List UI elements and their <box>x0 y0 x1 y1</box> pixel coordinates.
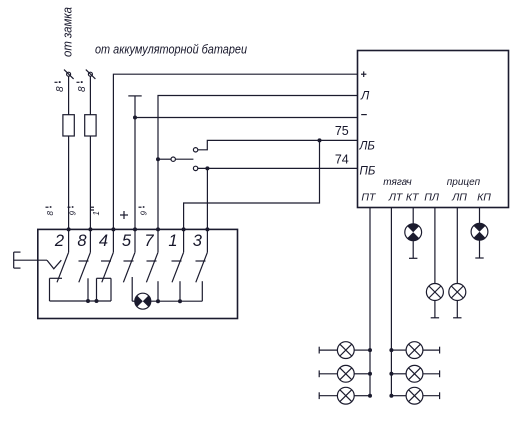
changeover switch SA1 arm <box>175 158 193 160</box>
changeover switch SA1 lower contact <box>193 166 197 170</box>
wire tag near pin 7 <box>139 206 149 215</box>
svg-text:ЛП: ЛП <box>451 192 467 204</box>
riser a <box>87 278 89 301</box>
wire: relay pin КП <box>479 208 481 224</box>
junction: pin 7 entry <box>156 227 160 231</box>
wire: battery + net (to relay box pin +, down to switch pin 4) <box>113 74 357 252</box>
actuator V pawl <box>47 260 61 269</box>
control lamp HL4 (КП, filled) <box>471 223 488 240</box>
junction: net ЛБ <box>318 138 322 142</box>
riser e <box>157 281 159 301</box>
svg-text:прицеп: прицеп <box>447 177 481 188</box>
wire label 8 (left wire) <box>55 81 67 92</box>
svg-text:2: 2 <box>54 232 64 250</box>
wire: net ПБ down to switch pin 3 <box>206 168 208 252</box>
lamp HL2 (ПЛ) <box>426 284 443 301</box>
wire: connector X1 to fuse F1 <box>68 76 70 115</box>
junction: ПТ bus row 1 <box>368 348 372 352</box>
contact 2 fixed terminal <box>50 278 63 301</box>
wire: fuse F2 to switch pin 8 <box>89 136 91 252</box>
wire: relay pin КТ <box>412 208 414 224</box>
switch box SA2 (turn signal switch) <box>38 229 238 318</box>
svg-text:ЛБ: ЛБ <box>359 141 376 153</box>
riser f <box>179 281 181 301</box>
svg-text:9: 9 <box>140 211 149 216</box>
wire: feed to changeover switch pole <box>158 158 171 160</box>
internal bus (left) <box>50 300 112 302</box>
pilot lamp HL11 (in switch, filled) <box>135 293 151 309</box>
wire: upper contact to net ЛБ (75) <box>198 140 358 149</box>
svg-text:8: 8 <box>77 86 88 92</box>
wire: riser d to pilot lamp <box>132 300 135 302</box>
junction riser f <box>178 299 182 303</box>
svg-text:8: 8 <box>46 211 55 216</box>
junction riser b <box>95 299 99 303</box>
terminal tick КП <box>475 257 483 259</box>
junction: pin 1 entry <box>182 227 186 231</box>
junction: net ПБ at pin 3 riser <box>205 166 209 170</box>
junction riser a <box>86 299 90 303</box>
svg-text:ПБ: ПБ <box>360 166 376 178</box>
contact 1 fixed bar <box>172 260 182 262</box>
wire: lamp HL2 to terminal <box>434 301 436 318</box>
junction: pin 4 entry <box>111 227 115 231</box>
svg-text:1: 1 <box>92 211 101 215</box>
relay box K (flasher unit) <box>358 51 509 208</box>
svg-text:КТ: КТ <box>406 192 420 204</box>
svg-text:5: 5 <box>122 232 132 250</box>
contact 5 fixed bar <box>124 260 134 262</box>
wire: fuse F1 to switch pin 2 <box>68 136 70 252</box>
junction: minus net <box>133 116 137 120</box>
junction: pin 8 entry <box>88 227 92 231</box>
wire: switch pin 1 riser to net ЛБ <box>184 140 320 252</box>
connector X2 (plug-socket, right wire from lock) <box>86 70 96 79</box>
lamp HL10 (right group row 3) <box>391 387 439 404</box>
contact 3 arm <box>196 252 208 282</box>
riser b <box>96 278 98 301</box>
junction: ЛТ bus row 1 <box>389 348 393 352</box>
svg-text:ПТ: ПТ <box>361 192 377 204</box>
wire: relay pin ЛП <box>456 208 458 284</box>
svg-text:75: 75 <box>335 124 349 138</box>
junction: ЛТ bus row 2 <box>389 372 393 376</box>
svg-text:КП: КП <box>477 192 491 204</box>
riser c <box>110 278 112 301</box>
junction: pin 2 entry <box>67 227 71 231</box>
wire: minus net vertical (to switch pin 5) <box>134 96 136 252</box>
contact 7 arm <box>146 252 158 282</box>
svg-text:3: 3 <box>193 232 203 250</box>
lamp HL3 (ЛП) <box>449 284 466 301</box>
contact 7 fixed bar <box>147 260 157 262</box>
contact 4 fixed bar <box>101 260 111 262</box>
terminal tick ПЛ <box>431 317 439 319</box>
junction: ПТ bus row 3 <box>368 394 372 398</box>
svg-text:от замка: от замка <box>60 7 75 57</box>
lamp HL6 (left group row 2) <box>319 365 370 382</box>
internal bus (right) <box>151 300 203 302</box>
riser g <box>201 281 203 301</box>
fuse F1 <box>63 115 74 136</box>
lamp HL5 (left group row 1) <box>319 342 370 359</box>
terminal tick ЛП <box>453 317 461 319</box>
pin label + <box>361 71 366 77</box>
changeover switch SA1 upper contact <box>193 148 197 152</box>
lamp HL7 (left group row 3) <box>319 387 370 404</box>
svg-text:от аккумуляторной батареи: от аккумуляторной батареи <box>95 43 247 57</box>
pin label - <box>361 114 367 116</box>
contact 8 arm <box>79 252 91 282</box>
junction: switch feed on net Л <box>156 157 160 161</box>
wire tag near pin 2 <box>46 206 56 215</box>
svg-text:8: 8 <box>55 86 66 92</box>
wire: lamp HL4 to terminal <box>479 240 481 258</box>
junction: pin 5 entry <box>133 227 137 231</box>
wire: lamp HL1 to terminal <box>412 241 414 259</box>
contact 4 arm <box>102 252 114 282</box>
terminal tick КТ <box>409 257 417 259</box>
svg-text:ПЛ: ПЛ <box>424 192 440 204</box>
contact 2 arm <box>57 252 69 282</box>
wire: minus net horizontal to relay pin - <box>135 117 358 119</box>
contact 5 arm <box>123 252 135 282</box>
connector X1 (plug-socket, left wire from lock) <box>64 70 74 79</box>
wire tag near pin 8 <box>68 206 78 215</box>
wire: lower contact to net ПБ (74) <box>198 167 358 169</box>
junction: pin 3 entry <box>205 227 209 231</box>
control lamp HL1 (КТ, filled) <box>405 224 422 241</box>
wire: lamp HL3 to terminal <box>456 301 458 318</box>
svg-text:7: 7 <box>144 232 154 250</box>
svg-text:тягач: тягач <box>383 177 411 188</box>
junction riser e <box>156 299 160 303</box>
contact 3 fixed bar <box>196 260 206 262</box>
lamp HL9 (right group row 2) <box>391 365 439 382</box>
wire tag near pin 4 <box>91 207 101 215</box>
wire label 8 (right wire) <box>77 81 89 92</box>
wire: net Л (relay pin Л to switch pin 7) <box>158 96 358 253</box>
wire: connector X2 to fuse F2 <box>89 76 91 115</box>
changeover switch SA1 pole <box>171 157 175 161</box>
svg-text:Л: Л <box>360 89 370 103</box>
junction: ПТ bus row 2 <box>368 372 372 376</box>
actuator link wire <box>14 259 47 261</box>
wire tag near pin 5 (+) <box>120 211 128 219</box>
fuse F2 <box>85 115 96 136</box>
riser d (under contact 5) <box>131 277 133 301</box>
junction: ЛТ bus row 3 <box>389 394 393 398</box>
contact 4 fixed terminal bar <box>97 277 112 279</box>
lamp HL8 (right group row 1) <box>391 342 439 359</box>
svg-text:8: 8 <box>77 232 87 250</box>
svg-text:9: 9 <box>69 211 78 216</box>
wire: relay pin ПТ to left lamp bus <box>369 208 371 396</box>
svg-text:4: 4 <box>99 232 108 250</box>
svg-text:1: 1 <box>168 232 177 250</box>
terminal bar (top of minus wire) <box>128 95 141 97</box>
actuator lever bracket <box>14 252 21 268</box>
contact 1 arm <box>172 252 184 282</box>
svg-text:74: 74 <box>335 153 349 167</box>
wire: relay pin ПЛ <box>434 208 436 284</box>
wire: relay pin ЛТ to right lamp bus <box>390 208 392 396</box>
contact 8 fixed bar <box>79 260 89 262</box>
svg-text:ЛТ: ЛТ <box>388 192 404 204</box>
